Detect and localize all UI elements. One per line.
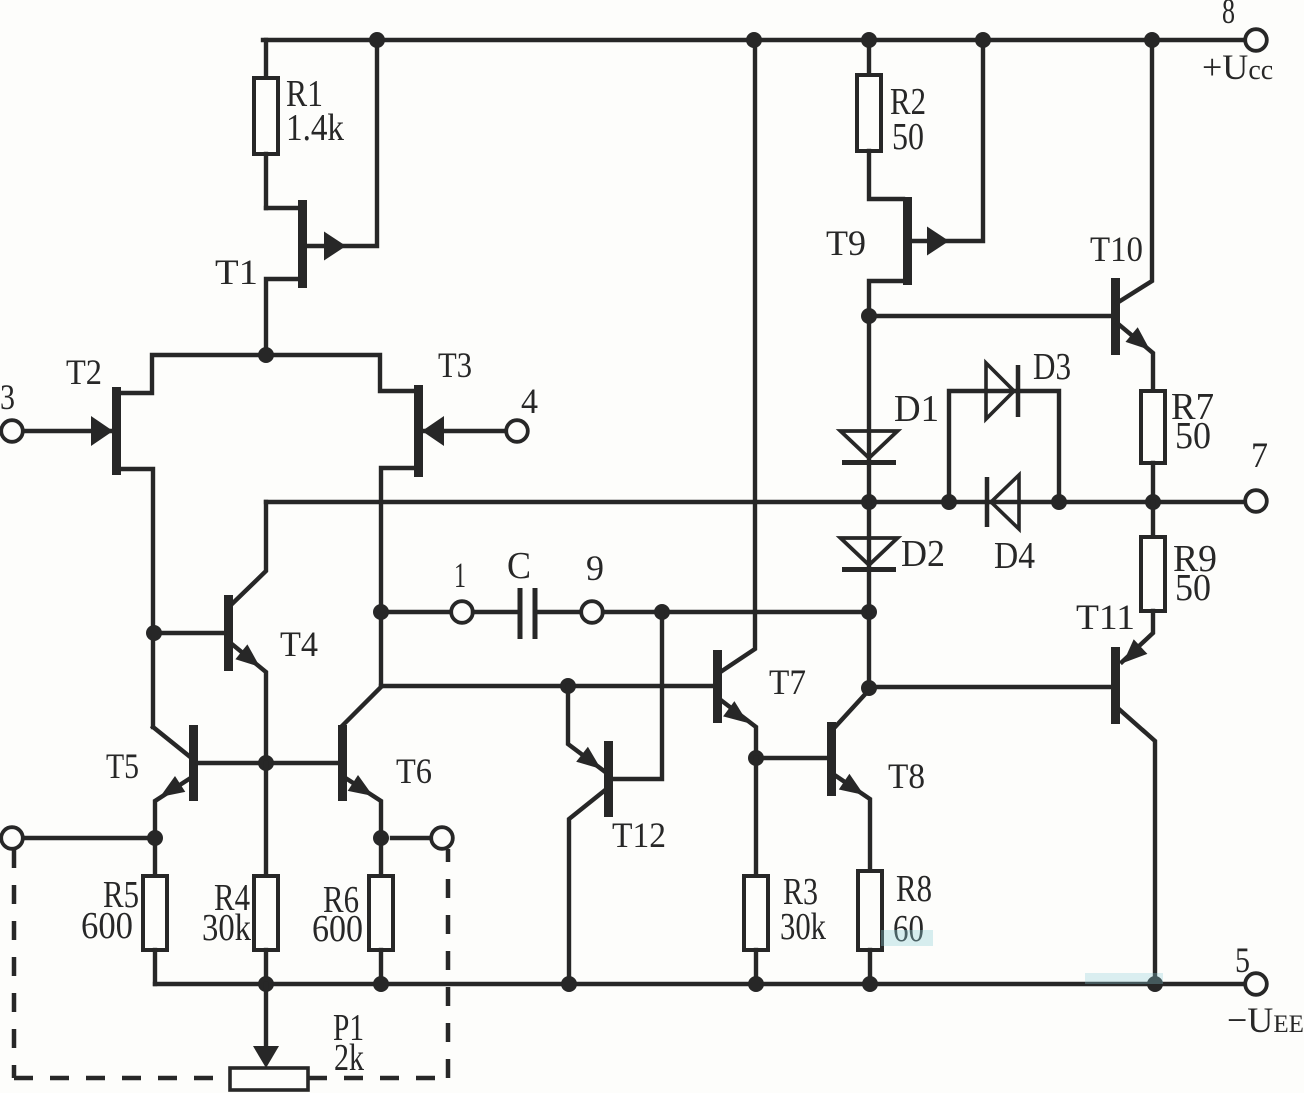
svg-text:1.4k: 1.4k (286, 107, 344, 149)
wire +Ucc top rail (263, 38, 1246, 42)
offset-null terminal left (1, 827, 155, 849)
junction dot rail T11 (1147, 976, 1163, 992)
svg-text:4: 4 (521, 381, 538, 421)
junction dot output line R7 (1145, 494, 1161, 510)
resistor R4 (254, 763, 278, 984)
svg-text:T8: T8 (888, 756, 925, 796)
jfet T2 (23, 387, 153, 727)
junction dot top rail T10 (1144, 32, 1160, 48)
svg-text:3: 3 (0, 377, 15, 417)
junction dot T2 source / T4 base / T5 collector (146, 625, 162, 641)
potentiometer P1 (230, 984, 308, 1090)
wire output line to pin 7 (266, 500, 1246, 504)
svg-text:50: 50 (1175, 415, 1211, 457)
svg-text:D2: D2 (901, 533, 945, 575)
dashed offset-null wiring (14, 849, 448, 1078)
svg-text:T6: T6 (396, 751, 432, 791)
junction dot T9 source node (861, 308, 877, 324)
svg-text:9: 9 (586, 548, 604, 588)
capacitor C (473, 588, 581, 639)
resistor R5 (143, 876, 167, 984)
terminal 7 (1245, 490, 1267, 512)
junction dot rail R6 (373, 976, 389, 992)
svg-text:T9: T9 (826, 223, 866, 263)
svg-text:50: 50 (1175, 567, 1211, 609)
junction dot rail R8 (862, 976, 878, 992)
svg-text:1: 1 (454, 555, 466, 595)
svg-text:D3: D3 (1033, 346, 1071, 388)
svg-text:R8: R8 (896, 868, 932, 910)
terminal 1 (451, 601, 473, 623)
svg-text:600: 600 (81, 905, 133, 947)
svg-text:600: 600 (312, 908, 363, 950)
terminal 4 (506, 420, 528, 442)
wire T6 collector to T7 base (381, 684, 713, 688)
svg-text:+Ucc: +Ucc (1202, 47, 1273, 87)
diode D1 (841, 316, 898, 502)
junction dot T3 source / cap node (373, 604, 389, 620)
junction dot D3 right (1051, 494, 1067, 510)
junction dot T7 emitter / T8 base (748, 750, 764, 766)
svg-text:7: 7 (1251, 435, 1268, 475)
transistor T7 (713, 40, 756, 758)
svg-text:8: 8 (1222, 0, 1235, 31)
wire -Uee bottom rail (155, 982, 1246, 986)
svg-text:C: C (507, 545, 531, 587)
jfet T3 (381, 385, 506, 686)
svg-text:T2: T2 (66, 352, 102, 392)
transistor T8 (827, 612, 870, 871)
svg-text:2k: 2k (334, 1037, 364, 1079)
terminal 9 (581, 601, 603, 623)
svg-text:5: 5 (1235, 940, 1250, 980)
junction dot node / T1 source (258, 347, 274, 363)
junction dot T5 emitter (147, 830, 163, 846)
svg-text:T3: T3 (438, 345, 472, 385)
transistor T10 (1111, 40, 1153, 391)
wire node 9 to D2 column (603, 610, 869, 614)
junction dot T6 emitter (373, 830, 389, 846)
resistor R7 (1141, 391, 1165, 502)
junction dot rail R3 (748, 976, 764, 992)
wire T10 base (869, 314, 1111, 318)
svg-text:T10: T10 (1090, 229, 1143, 269)
terminal 8 (1245, 29, 1267, 51)
junction dot T8 collector / T11 base line (861, 680, 877, 696)
junction dot D2 / cap node (861, 604, 877, 620)
terminal 3 (1, 420, 23, 442)
junction dot T4 emitter / bases (258, 755, 274, 771)
wire T11 base (869, 685, 1111, 689)
wire diff-pair drain node (121, 355, 414, 393)
junction dot rail T12 (561, 976, 577, 992)
jfet T1 (266, 40, 377, 355)
transistor T5 (153, 725, 198, 876)
offset-null terminal right (392, 827, 453, 849)
junction dot top rail / T1 gate (369, 32, 385, 48)
svg-text:D4: D4 (994, 535, 1035, 577)
junction dot T12 base tap (654, 604, 670, 620)
svg-text:30k: 30k (202, 907, 251, 949)
diode D3 (949, 363, 1059, 502)
jfet T9 (869, 40, 983, 316)
resistor R8 (858, 871, 882, 984)
transistor T12 (568, 612, 662, 984)
resistor R1 (254, 40, 278, 208)
wire T5/T6 base tie (198, 761, 338, 765)
svg-text:T12: T12 (612, 815, 666, 855)
svg-text:T7: T7 (769, 662, 806, 702)
svg-text:T1: T1 (215, 252, 258, 292)
transistor T4 (154, 502, 266, 763)
wire T8 base (756, 756, 827, 760)
svg-text:T5: T5 (106, 746, 139, 786)
diode D4 (987, 475, 1019, 529)
junction dot top rail R2 (861, 32, 877, 48)
resistor R2 (857, 40, 903, 199)
svg-text:−UEE: −UEE (1227, 1000, 1304, 1040)
svg-text:T11: T11 (1076, 597, 1135, 637)
svg-text:50: 50 (892, 116, 924, 158)
svg-text:T4: T4 (280, 624, 318, 664)
resistor R6 (369, 838, 393, 984)
svg-text:30k: 30k (780, 906, 826, 948)
junction dot D3 left (941, 494, 957, 510)
junction dot top rail T9 gate (975, 32, 991, 48)
junction dot T12 emitter tap (560, 678, 576, 694)
junction dot rail R4 (258, 976, 274, 992)
transistor T11 (1111, 639, 1155, 984)
resistor R3 (744, 758, 768, 984)
resistor R9 (1122, 502, 1165, 662)
svg-text:D1: D1 (894, 388, 939, 430)
diode D2 (841, 502, 898, 612)
junction dot output line D1 (861, 494, 877, 510)
junction dot top rail T7 (746, 32, 762, 48)
terminal 5 (1245, 973, 1267, 995)
transistor T6 (338, 687, 381, 838)
wire compensation node (381, 610, 451, 614)
